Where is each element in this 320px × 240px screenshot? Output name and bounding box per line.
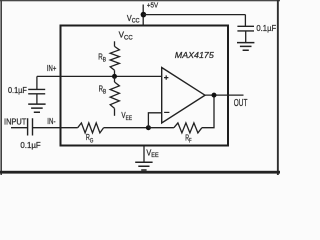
wire left bypass stub <box>36 76 38 89</box>
border frame bottom <box>0 171 280 174</box>
op-amp + input marker <box>164 75 168 79</box>
wire VEE stub below box <box>143 147 145 162</box>
border frame right <box>277 0 279 175</box>
wire VCC stub lead <box>114 41 116 46</box>
node output junction dot <box>212 93 217 98</box>
svg-text:OUT: OUT <box>234 98 248 109</box>
node bias junction dot <box>112 74 117 79</box>
ground (top right) <box>237 43 254 51</box>
svg-text:INPUT: INPUT <box>4 117 26 127</box>
capacitor C3 0.1uF (input coupling) <box>28 118 33 135</box>
svg-text:IN+: IN+ <box>47 63 57 73</box>
svg-text:0.1µF: 0.1µF <box>8 86 27 95</box>
resistor RB (upper) <box>110 46 119 70</box>
svg-text:MAX4175: MAX4175 <box>175 50 214 60</box>
resistor RF <box>174 123 202 133</box>
wire coupling cap to RG <box>33 127 78 129</box>
resistor RG <box>78 123 104 133</box>
wire summing node to RF <box>148 127 174 129</box>
svg-text:+5V: +5V <box>147 1 158 10</box>
resistor RB (lower) <box>110 82 119 108</box>
wire summing node to - input <box>148 113 161 128</box>
wire node to RB lower <box>114 76 116 82</box>
wire bypass cap lead top-right <box>244 15 246 26</box>
svg-text:0.1µF: 0.1µF <box>20 141 40 150</box>
node summing junction dot <box>146 125 151 130</box>
wire RF to output <box>202 95 214 128</box>
ground (IN+ bypass) <box>28 104 45 112</box>
wire +5V supply vertical <box>142 5 144 26</box>
op-amp - input marker <box>164 111 169 113</box>
svg-text:0.1µF: 0.1µF <box>256 24 276 33</box>
border frame left <box>0 0 2 175</box>
op-amp U1 triangle <box>162 68 205 124</box>
wire RB to node <box>114 70 116 76</box>
border frame top <box>0 0 280 1</box>
node junction dot +5V <box>141 12 147 18</box>
capacitor C2 0.1uF (IN+ bypass) <box>28 89 45 93</box>
wire RB lower lead to VEE <box>114 108 116 115</box>
wire INPUT to coupling cap <box>11 127 27 129</box>
wire RG to summing node <box>104 127 149 129</box>
wire IN+ net <box>37 75 162 77</box>
ground (VEE bottom) <box>135 162 152 170</box>
IC box U1 outline <box>61 26 229 146</box>
capacitor C1 0.1uF (top right) <box>237 26 254 31</box>
wire supply to bypass cap <box>143 14 245 16</box>
wire op-amp output <box>205 94 244 96</box>
svg-text:IN-: IN- <box>47 116 55 126</box>
